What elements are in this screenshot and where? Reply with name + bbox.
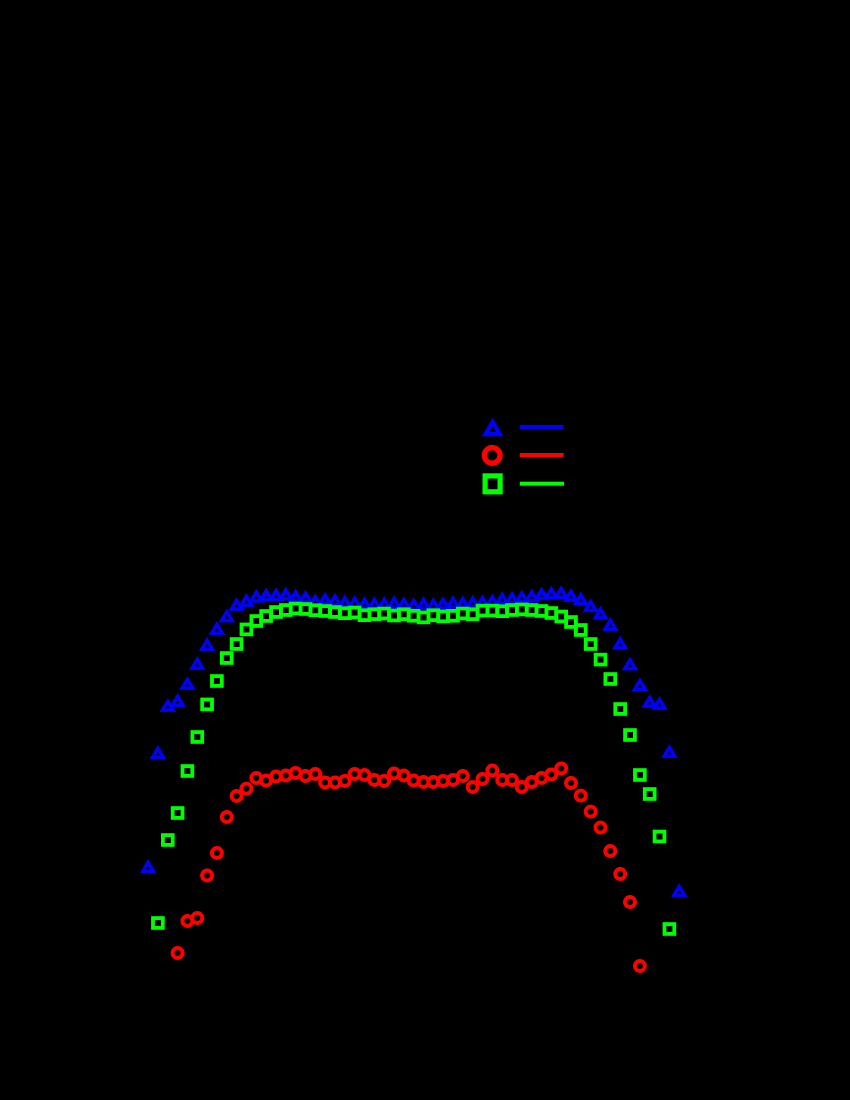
data series: red open circles: [173, 764, 645, 972]
data series: blue open triangles: [143, 589, 685, 896]
legend line: red: [520, 453, 564, 457]
legend line: blue: [520, 425, 564, 429]
legend marker: green square: [485, 476, 500, 492]
legend line: green: [520, 482, 564, 486]
legend marker: red circle: [484, 448, 500, 464]
data series: green open squares: [153, 604, 674, 934]
legend marker: blue triangle: [485, 422, 499, 434]
